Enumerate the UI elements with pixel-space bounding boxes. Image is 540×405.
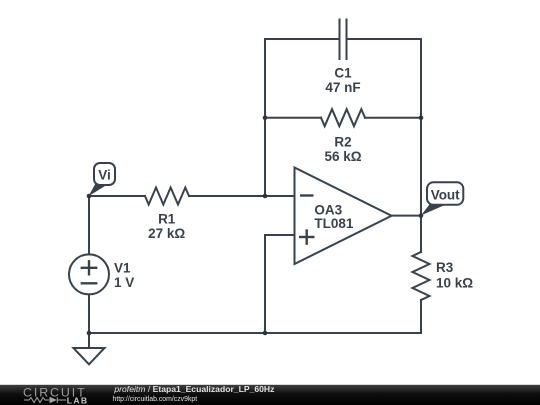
label C1 value (325, 66, 360, 96)
junction dot: ground rail at non-inverting branch (263, 331, 268, 336)
svg-text:http://circuitlab.com/czv9kpt: http://circuitlab.com/czv9kpt (113, 396, 198, 403)
CircuitLab logo wordmark (23, 385, 88, 405)
wire: R3 bottom to ground rail (89, 300, 421, 333)
svg-text:Vi: Vi (98, 167, 111, 182)
svg-text:56 kΩ: 56 kΩ (324, 149, 361, 164)
wire: output node down to R3 (420, 216, 422, 252)
label R2 value (324, 135, 361, 165)
wire: Vi node down to V1 (88, 196, 90, 254)
wire: Vi node to R1 (89, 195, 145, 197)
svg-text:LAB: LAB (67, 395, 89, 405)
junction dot: ground rail at V1 (87, 331, 92, 336)
capacitor C1 (340, 20, 347, 60)
junction dot: inverting node left (R2/C1 left) (263, 115, 268, 120)
voltage source V1 (69, 254, 109, 294)
svg-text:R2: R2 (334, 135, 351, 150)
op-amp OA3 (295, 168, 392, 265)
label R1 value (148, 212, 185, 241)
footer bar (0, 385, 540, 405)
svg-text:Vout: Vout (431, 187, 460, 202)
resistor R3 (413, 252, 430, 300)
wire: right vertical R2 to output node (420, 118, 422, 216)
svg-text:27 kΩ: 27 kΩ (148, 226, 185, 241)
node Vi flag (89, 163, 116, 196)
svg-text:TL081: TL081 (314, 216, 354, 231)
svg-text:10 kΩ: 10 kΩ (436, 276, 473, 291)
svg-text:R1: R1 (158, 212, 176, 227)
label R3 value (436, 260, 473, 290)
svg-text:R3: R3 (436, 260, 454, 275)
resistor R2 (321, 109, 365, 126)
wire: non-inverting input (265, 235, 295, 333)
wire: top feedback left segment (265, 39, 340, 118)
junction dot: feedback right (R2/C1 right) (419, 115, 424, 120)
junction dot: node Vout (419, 213, 424, 218)
junction dot: node Vi (87, 194, 92, 199)
svg-text:47 nF: 47 nF (325, 80, 360, 95)
wire: R2 right lead (365, 117, 421, 119)
wire: R2 left lead (265, 117, 321, 119)
wire: left feedback vertical to inverting node (264, 118, 266, 196)
wire: top feedback right segment (347, 39, 422, 118)
node Vout flag (421, 182, 463, 215)
svg-text:V1: V1 (114, 261, 131, 276)
wire: R1 to inverting input (189, 195, 295, 197)
svg-text:1 V: 1 V (114, 275, 134, 290)
wire: op-amp output (392, 215, 422, 217)
svg-text:profeitm / Etapa1_Ecualizador_: profeitm / Etapa1_Ecualizador_LP_60Hz (113, 384, 274, 394)
resistor R1 (145, 188, 189, 205)
footer caption text (113, 384, 275, 403)
ground (73, 333, 104, 364)
wire: V1 bottom to ground rail (88, 294, 90, 333)
svg-text:C1: C1 (334, 66, 352, 81)
label V1 value (114, 261, 134, 291)
junction dot: inverting input node (263, 194, 268, 199)
